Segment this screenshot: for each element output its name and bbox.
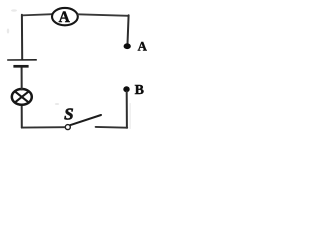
wire: left vertical from lamp down to bottom corner: [21, 105, 23, 127]
node B (terminal dot): [123, 86, 129, 92]
switch S pivot circle: [65, 125, 70, 130]
wire: bottom-right horizontal segment: [96, 126, 128, 129]
svg-text:B: B: [135, 83, 144, 98]
wire: top-right horizontal segment: [78, 14, 129, 16]
wire: right vertical from terminal B down to bottom corner: [126, 92, 128, 128]
battery cell: long plate (positive): [7, 59, 37, 61]
svg-text:A: A: [59, 9, 71, 26]
svg-text:S: S: [64, 104, 73, 123]
wire: bottom-left horizontal segment: [22, 126, 65, 128]
scan noise smudges (decorative): [7, 9, 131, 129]
battery cell: short thick plate (negative): [13, 65, 28, 68]
wire: left vertical from top corner to battery: [21, 15, 23, 60]
switch S blade: [70, 115, 101, 125]
ammeter A (meter): [52, 8, 78, 26]
lamp L (circle with X): [12, 89, 32, 105]
wire: top-left horizontal segment: [22, 14, 52, 15]
wire: right vertical down to terminal A: [128, 15, 129, 44]
node A (terminal dot): [124, 43, 131, 49]
wire: between battery and lamp: [21, 67, 23, 90]
svg-text:A: A: [138, 40, 148, 54]
